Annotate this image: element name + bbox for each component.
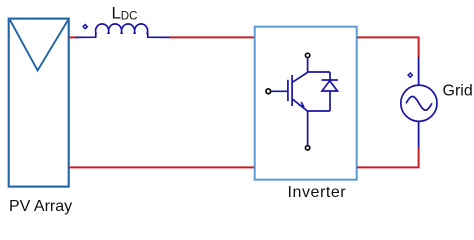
wire: grid corner to inverter (red, bottom) (357, 148, 419, 167)
svg-text:L: L (112, 4, 121, 23)
svg-text:Grid: Grid (443, 83, 473, 100)
wire: grid source bottom lead (blue) (418, 121, 420, 148)
IGBT Q1 collector lead wire (308, 58, 330, 72)
wire: PV positive terminal to inductor (red) (69, 36, 77, 38)
AC source V1 (Grid) circle (401, 85, 437, 121)
wire: inverter to PV return (red, bottom) (69, 166, 254, 168)
inductor L_DC (76, 24, 170, 38)
current flag marker at grid (408, 73, 412, 77)
svg-text:DC: DC (121, 11, 138, 23)
wire: inverter to grid corner (red, top) (357, 37, 419, 57)
solar panel PV1 (PV Array body) (9, 19, 69, 187)
current flag marker on DC link (83, 25, 87, 29)
IGBT Q1 emitter terminal (pin -) (305, 146, 309, 150)
svg-text:Inverter: Inverter (288, 184, 347, 201)
freewheeling diode D1 (322, 72, 339, 111)
inverter block outline (255, 27, 357, 180)
IGBT Q1 body (gate bar, body bar, collector/emitter diagonals, arrow) (271, 72, 308, 111)
svg-text:PV Array: PV Array (9, 198, 72, 215)
IGBT Q1 emitter rail wire (308, 111, 330, 145)
wire: grid source top lead (blue) (418, 57, 420, 85)
IGBT Q1 collector terminal (pin +) (305, 53, 309, 57)
IGBT Q1 gate terminal circle (266, 89, 271, 94)
wire: inductor to inverter (red) (170, 36, 254, 38)
AC source sine wave (406, 97, 432, 111)
